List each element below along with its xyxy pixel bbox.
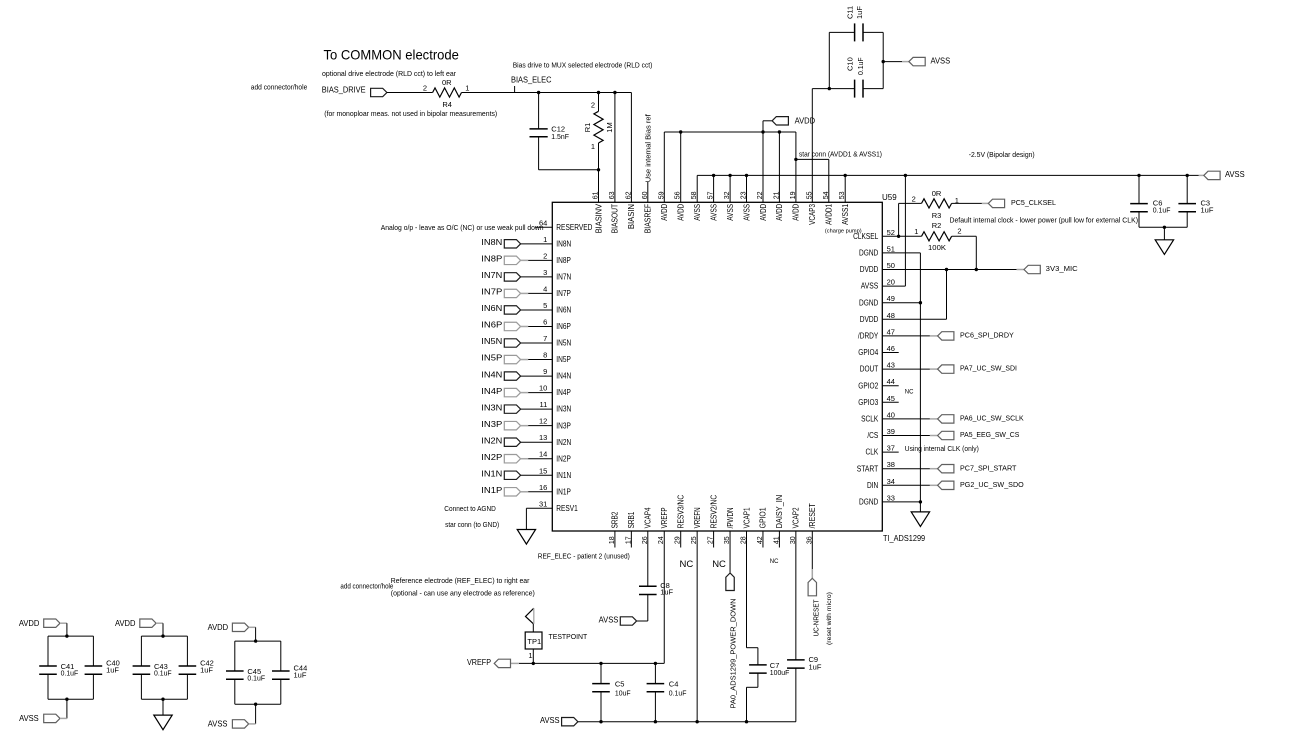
- svg-text:(optional - can use any electr: (optional - can use any electrode as ref…: [391, 590, 535, 597]
- svg-text:1uF: 1uF: [106, 665, 119, 674]
- svg-text:6: 6: [543, 317, 547, 326]
- svg-text:0.1uF: 0.1uF: [154, 669, 172, 678]
- svg-text:star conn (AVDD1 & AVSS1): star conn (AVDD1 & AVSS1): [799, 152, 882, 159]
- svg-text:IN5P: IN5P: [556, 355, 571, 364]
- svg-text:50: 50: [887, 261, 895, 270]
- svg-text:IN6N: IN6N: [481, 304, 502, 313]
- svg-text:(charge pump): (charge pump): [825, 229, 862, 235]
- svg-text:47: 47: [887, 327, 895, 336]
- svg-text:10uF: 10uF: [615, 688, 631, 697]
- svg-text:45: 45: [887, 394, 895, 403]
- svg-text:0.1uF: 0.1uF: [669, 688, 687, 697]
- svg-text:VCAP1: VCAP1: [742, 507, 751, 528]
- svg-text:9: 9: [543, 367, 547, 376]
- svg-text:IN1N: IN1N: [556, 471, 571, 480]
- svg-text:BIAS_DRIVE: BIAS_DRIVE: [322, 86, 366, 95]
- svg-text:AVDD: AVDD: [775, 204, 784, 221]
- svg-text:PC6_SPI_DRDY: PC6_SPI_DRDY: [960, 331, 1014, 340]
- svg-text:20: 20: [887, 278, 895, 287]
- svg-text:star conn (to GND): star conn (to GND): [445, 522, 499, 529]
- svg-text:43: 43: [887, 361, 895, 370]
- svg-text:-2.5V (Bipolar design): -2.5V (Bipolar design): [969, 152, 1035, 159]
- svg-text:IN6N: IN6N: [556, 306, 571, 315]
- svg-text:100K: 100K: [928, 243, 946, 252]
- svg-text:48: 48: [887, 311, 895, 320]
- svg-text:IN7N: IN7N: [481, 271, 502, 280]
- svg-text:Bias drive to MUX selected ele: Bias drive to MUX selected electrode (RL…: [513, 60, 653, 69]
- svg-text:44: 44: [887, 377, 895, 386]
- svg-text:R2: R2: [932, 221, 942, 230]
- svg-text:1uF: 1uF: [200, 665, 213, 674]
- svg-text:3: 3: [543, 268, 547, 277]
- svg-text:33: 33: [887, 493, 895, 502]
- svg-text:/CS: /CS: [867, 431, 878, 440]
- svg-text:AVSS1: AVSS1: [841, 203, 850, 224]
- svg-text:To COMMON electrode: To COMMON electrode: [324, 47, 460, 63]
- svg-text:AVDD: AVDD: [115, 619, 136, 628]
- svg-text:UC-NRESET: UC-NRESET: [811, 599, 820, 636]
- svg-text:START: START: [857, 464, 879, 473]
- svg-text:BIAS_ELEC: BIAS_ELEC: [511, 75, 552, 84]
- svg-text:BIASREF: BIASREF: [644, 204, 653, 233]
- svg-text:AVDD: AVDD: [19, 619, 40, 628]
- svg-text:TI_ADS1299: TI_ADS1299: [883, 534, 926, 543]
- svg-text:AVSS: AVSS: [19, 714, 39, 723]
- svg-text:DAISY_IN: DAISY_IN: [775, 495, 784, 529]
- svg-text:optional drive electrode (RLD: optional drive electrode (RLD cct) to le…: [322, 69, 456, 78]
- svg-text:add connector/hole: add connector/hole: [251, 83, 307, 92]
- svg-text:BIASINV: BIASINV: [594, 203, 603, 233]
- svg-text:GPIO2: GPIO2: [858, 381, 879, 390]
- svg-text:AVDD: AVDD: [759, 204, 768, 221]
- svg-text:GPIO3: GPIO3: [858, 398, 879, 407]
- svg-text:1uF: 1uF: [1201, 205, 1214, 214]
- svg-text:C11: C11: [845, 6, 854, 19]
- svg-text:IN3P: IN3P: [556, 421, 571, 430]
- svg-text:AVSS: AVSS: [693, 204, 702, 221]
- svg-text:AVSS: AVSS: [861, 282, 879, 291]
- svg-text:PA7_UC_SW_SDI: PA7_UC_SW_SDI: [960, 364, 1017, 373]
- svg-text:IN4P: IN4P: [556, 388, 571, 397]
- svg-text:AVDD: AVDD: [660, 204, 669, 221]
- svg-text:1: 1: [914, 227, 918, 236]
- svg-text:/DRDY: /DRDY: [858, 332, 879, 341]
- svg-text:IN1P: IN1P: [481, 486, 502, 495]
- svg-text:BIASIN: BIASIN: [627, 204, 636, 229]
- svg-text:IN3N: IN3N: [556, 405, 571, 414]
- svg-text:BIASOUT: BIASOUT: [611, 204, 620, 233]
- svg-text:/RESET: /RESET: [808, 503, 817, 528]
- svg-text:VREFP: VREFP: [660, 507, 669, 528]
- svg-text:IN7N: IN7N: [556, 272, 571, 281]
- svg-text:1uF: 1uF: [660, 588, 673, 597]
- svg-text:7: 7: [543, 334, 547, 343]
- svg-text:IN5N: IN5N: [481, 337, 502, 346]
- svg-text:NC: NC: [712, 559, 726, 570]
- svg-text:C5: C5: [615, 680, 625, 689]
- svg-text:1M: 1M: [605, 122, 614, 132]
- svg-text:IN2N: IN2N: [556, 438, 571, 447]
- svg-text:15: 15: [539, 466, 547, 475]
- svg-text:/PWDN: /PWDN: [726, 507, 735, 528]
- svg-text:0.1uF: 0.1uF: [247, 674, 265, 683]
- svg-text:39: 39: [887, 427, 895, 436]
- svg-text:SRB1: SRB1: [627, 511, 636, 528]
- svg-text:2: 2: [423, 84, 427, 93]
- svg-text:100uF: 100uF: [770, 668, 790, 677]
- svg-text:DGND: DGND: [859, 249, 878, 258]
- svg-text:DGND: DGND: [859, 498, 878, 507]
- svg-text:0.1uF: 0.1uF: [856, 57, 865, 75]
- svg-text:1.5nF: 1.5nF: [551, 132, 569, 141]
- svg-text:PG2_UC_SW_SDO: PG2_UC_SW_SDO: [960, 480, 1024, 489]
- svg-text:AVSS: AVSS: [540, 716, 560, 725]
- svg-text:37: 37: [887, 444, 895, 453]
- svg-text:Connect to AGND: Connect to AGND: [444, 506, 496, 513]
- svg-text:16: 16: [539, 483, 547, 492]
- svg-text:PC7_SPI_START: PC7_SPI_START: [960, 463, 1017, 472]
- svg-text:AVSS: AVSS: [742, 204, 751, 221]
- svg-text:IN1N: IN1N: [481, 469, 502, 478]
- svg-text:AVDD: AVDD: [208, 623, 229, 632]
- svg-text:31: 31: [539, 499, 547, 508]
- svg-text:1: 1: [465, 84, 469, 93]
- svg-text:1uF: 1uF: [294, 670, 307, 679]
- svg-text:AVSS: AVSS: [931, 57, 951, 66]
- svg-text:Reference electrode (REF_ELEC): Reference electrode (REF_ELEC) to right …: [391, 578, 530, 585]
- svg-text:49: 49: [887, 294, 895, 303]
- svg-text:AVSS: AVSS: [208, 720, 228, 729]
- svg-text:IN2N: IN2N: [481, 436, 502, 445]
- svg-text:IN4N: IN4N: [556, 372, 571, 381]
- svg-text:DIN: DIN: [867, 481, 878, 490]
- svg-text:NC: NC: [680, 559, 694, 570]
- svg-text:3V3_MIC: 3V3_MIC: [1046, 264, 1079, 273]
- svg-text:IN3P: IN3P: [481, 420, 502, 429]
- svg-text:VCAP2: VCAP2: [792, 507, 801, 528]
- svg-text:TP1: TP1: [527, 637, 541, 646]
- svg-text:Default internal clock - lower: Default internal clock - lower power (pu…: [950, 218, 1139, 225]
- svg-text:IN8P: IN8P: [481, 255, 502, 264]
- svg-text:1: 1: [528, 651, 532, 660]
- svg-text:IN4N: IN4N: [481, 370, 502, 379]
- svg-text:DVDD: DVDD: [860, 265, 879, 274]
- svg-text:10: 10: [539, 384, 547, 393]
- svg-text:PA0_ADS1299_POWER_DOWN: PA0_ADS1299_POWER_DOWN: [728, 599, 737, 709]
- svg-text:RESV1: RESV1: [556, 504, 578, 513]
- svg-text:40: 40: [887, 410, 895, 419]
- svg-text:46: 46: [887, 344, 895, 353]
- svg-text:1: 1: [543, 235, 547, 244]
- svg-text:Using internal CLK (only): Using internal CLK (only): [905, 446, 979, 453]
- svg-text:R3: R3: [932, 211, 942, 220]
- svg-text:IN6P: IN6P: [481, 321, 502, 330]
- svg-text:C10: C10: [845, 57, 854, 71]
- svg-text:SRB2: SRB2: [611, 511, 620, 528]
- svg-text:DVDD: DVDD: [860, 315, 879, 324]
- svg-text:add connector/hole: add connector/hole: [340, 584, 393, 591]
- svg-text:AVSS: AVSS: [599, 615, 619, 624]
- svg-text:2: 2: [957, 227, 961, 236]
- svg-text:2: 2: [543, 251, 547, 260]
- svg-text:IN8N: IN8N: [556, 239, 571, 248]
- svg-text:AVSS: AVSS: [709, 204, 718, 221]
- svg-text:(for monoploar meas. not used: (for monoploar meas. not used in bipolar…: [324, 109, 497, 118]
- svg-text:IN5P: IN5P: [481, 354, 502, 363]
- svg-text:52: 52: [887, 228, 895, 237]
- svg-text:1uF: 1uF: [855, 6, 864, 19]
- svg-text:1: 1: [955, 196, 959, 205]
- svg-text:13: 13: [539, 433, 547, 442]
- svg-text:VCAP3: VCAP3: [808, 203, 817, 224]
- svg-text:34: 34: [887, 477, 895, 486]
- svg-text:AVDD: AVDD: [677, 204, 686, 221]
- svg-text:0R: 0R: [932, 189, 942, 198]
- svg-text:2: 2: [912, 195, 916, 204]
- svg-text:VREFP: VREFP: [467, 658, 491, 667]
- svg-text:IN8P: IN8P: [556, 256, 571, 265]
- svg-text:5: 5: [543, 301, 547, 310]
- svg-text:IN2P: IN2P: [481, 453, 502, 462]
- svg-text:Use internal Bias ref: Use internal Bias ref: [644, 113, 653, 182]
- svg-text:51: 51: [887, 244, 895, 253]
- svg-text:12: 12: [539, 417, 547, 426]
- svg-text:IN6P: IN6P: [556, 322, 571, 331]
- svg-text:11: 11: [540, 400, 548, 409]
- svg-text:PC5_CLKSEL: PC5_CLKSEL: [1011, 198, 1056, 207]
- svg-text:IN7P: IN7P: [556, 289, 571, 298]
- svg-text:DGND: DGND: [859, 298, 878, 307]
- svg-text:14: 14: [539, 450, 547, 459]
- svg-text:SCLK: SCLK: [861, 415, 879, 424]
- svg-text:IN7P: IN7P: [481, 288, 502, 297]
- svg-text:TESTPOINT: TESTPOINT: [549, 632, 588, 641]
- svg-text:AVDD1: AVDD1: [825, 203, 834, 224]
- svg-text:AVSS: AVSS: [1225, 170, 1245, 179]
- svg-text:R1: R1: [583, 123, 592, 133]
- svg-text:8: 8: [543, 351, 547, 360]
- svg-text:IN4P: IN4P: [481, 387, 502, 396]
- svg-text:NC: NC: [905, 390, 914, 396]
- svg-text:IN5N: IN5N: [556, 339, 571, 348]
- svg-text:GPIO1: GPIO1: [759, 507, 768, 528]
- svg-text:PA5_EEG_SW_CS: PA5_EEG_SW_CS: [960, 430, 1019, 439]
- svg-text:RESV3/NC: RESV3/NC: [677, 495, 686, 529]
- svg-text:RESERVED: RESERVED: [556, 223, 592, 232]
- svg-text:DOUT: DOUT: [860, 365, 879, 374]
- svg-text:CLK: CLK: [866, 448, 879, 457]
- svg-text:VREFN: VREFN: [693, 507, 702, 528]
- svg-text:NC: NC: [770, 559, 779, 565]
- svg-text:0.1uF: 0.1uF: [1153, 205, 1171, 214]
- svg-text:IN1P: IN1P: [556, 487, 571, 496]
- svg-text:0.1uF: 0.1uF: [61, 669, 79, 678]
- svg-text:Analog o/p - leave as O/C (NC): Analog o/p - leave as O/C (NC) or use we…: [381, 223, 544, 232]
- svg-text:(reset with micro): (reset with micro): [827, 592, 833, 645]
- svg-text:RESV2/NC: RESV2/NC: [709, 495, 718, 529]
- svg-text:AVDD: AVDD: [792, 204, 801, 221]
- svg-text:GPIO4: GPIO4: [858, 348, 879, 357]
- svg-text:2: 2: [591, 100, 595, 109]
- svg-text:U59: U59: [882, 193, 897, 202]
- svg-text:R4: R4: [442, 100, 452, 109]
- svg-text:IN2P: IN2P: [556, 454, 571, 463]
- svg-text:REF_ELEC - patient 2 (unused): REF_ELEC - patient 2 (unused): [538, 554, 630, 561]
- svg-text:1uF: 1uF: [809, 663, 822, 672]
- svg-text:4: 4: [543, 284, 547, 293]
- svg-text:1: 1: [591, 142, 595, 151]
- svg-text:VCAP4: VCAP4: [644, 507, 653, 528]
- svg-text:IN8N: IN8N: [481, 238, 502, 247]
- svg-text:0R: 0R: [442, 78, 452, 87]
- svg-text:AVSS: AVSS: [726, 204, 735, 221]
- svg-text:38: 38: [887, 460, 895, 469]
- svg-text:C4: C4: [669, 680, 679, 689]
- svg-text:IN3N: IN3N: [481, 403, 502, 412]
- svg-text:PA6_UC_SW_SCLK: PA6_UC_SW_SCLK: [960, 414, 1024, 423]
